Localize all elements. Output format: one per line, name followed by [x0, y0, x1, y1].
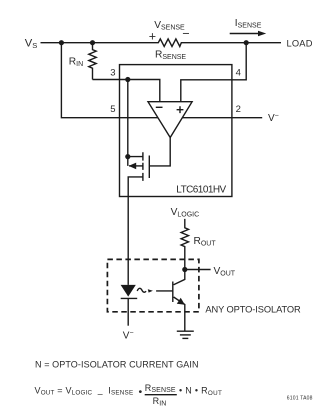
node junction dot D (pin3 / source branch) — [125, 77, 130, 82]
svg-text:2: 2 — [236, 104, 241, 115]
arrow ISENSE current direction — [230, 33, 261, 35]
svg-text:•: • — [138, 386, 142, 398]
wire pin5 / pin2 rail (V+ left, V- right, behind op-amp) — [61, 43, 262, 118]
body arrow — [129, 165, 143, 167]
wire pin3 to inverting input — [93, 80, 160, 102]
wire VOUT — [185, 269, 211, 271]
svg-text:ANY OPTO-ISOLATOR: ANY OPTO-ISOLATOR — [205, 305, 301, 315]
svg-text:−: − — [182, 27, 189, 41]
opto-isolator dashed box — [107, 259, 198, 311]
light coupling arrow — [137, 288, 146, 292]
wire drain down to LED — [128, 177, 143, 285]
collector — [174, 270, 185, 285]
transistor M1 (internal MOSFET) — [148, 156, 150, 179]
wire op-amp output to gate — [150, 138, 170, 166]
resistor RIN — [89, 43, 96, 80]
resistor ROUT — [181, 219, 188, 270]
svg-text:6101 TA08: 6101 TA08 — [287, 396, 313, 402]
node junction dot C (load side) — [244, 40, 249, 45]
ground — [177, 330, 194, 332]
svg-text:+: + — [149, 30, 156, 44]
node junction dot E (source) — [125, 154, 130, 159]
IC box LTC6101HV — [120, 65, 232, 197]
svg-text:N = OPTO-ISOLATOR CURRENT GAIN: N = OPTO-ISOLATOR CURRENT GAIN — [35, 360, 199, 370]
diode LED (opto emitter) — [121, 285, 136, 297]
transistor Q1 (opto phototransistor) — [172, 282, 174, 303]
svg-text:LOAD: LOAD — [287, 39, 313, 49]
svg-text:3: 3 — [110, 68, 115, 79]
svg-text:5: 5 — [110, 104, 115, 115]
svg-text:–: – — [98, 389, 103, 399]
node junction dot A (VS / left branch) — [59, 40, 64, 45]
node junction dot B (RIN top) — [90, 40, 95, 45]
wire noninverting input to pin4 — [181, 43, 246, 102]
wire top rail with sense resistor — [41, 39, 282, 47]
op-amp U1 — [148, 102, 192, 138]
emitter with arrow — [174, 297, 185, 331]
svg-text:4: 4 — [236, 68, 241, 79]
base stub — [156, 290, 173, 292]
svg-text:LTC6101HV: LTC6101HV — [176, 185, 226, 196]
node junction dot F (VOUT / collector) — [182, 267, 187, 272]
wire source to pin3 node — [128, 80, 143, 166]
